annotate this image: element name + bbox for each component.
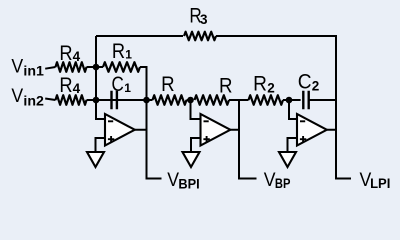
svg-text:C: C xyxy=(112,73,124,96)
svg-text:in1: in1 xyxy=(23,64,44,79)
wire: R2 to node E xyxy=(283,99,289,101)
svg-text:2: 2 xyxy=(267,81,275,96)
wire: node A to R1 xyxy=(96,66,103,68)
svg-text:R: R xyxy=(219,75,233,98)
node C junction dot xyxy=(187,97,194,104)
resistor R4 (upper, Vin1) xyxy=(56,62,87,72)
svg-text:R: R xyxy=(161,73,175,96)
svg-text:2: 2 xyxy=(312,79,320,94)
svg-text:R: R xyxy=(59,74,72,97)
wire: top feedback run (node A to right column) xyxy=(96,35,336,37)
wire: Vin1 lead into R4a xyxy=(45,67,55,69)
wire: U2 plus input to ground xyxy=(191,138,201,152)
capacitor C2 xyxy=(303,91,308,109)
svg-text:1: 1 xyxy=(125,47,132,61)
op-amp U3 xyxy=(297,114,327,146)
wire: leads of R #1 xyxy=(147,99,191,101)
wire: node A vertical (top wire down to op-amp U1 minus input) xyxy=(96,36,105,119)
wire: U3 plus input to ground xyxy=(288,138,298,152)
resistor R4 (lower, Vin2) xyxy=(56,95,87,105)
ground (U3 non-inverting input) xyxy=(279,152,296,167)
wire: Vin2 lead into R4b xyxy=(45,99,55,101)
wire: lead R#2 to T junction xyxy=(229,99,239,101)
svg-text:R: R xyxy=(253,73,267,96)
wire: node B vertical (down to VBPI stub) xyxy=(147,67,162,179)
resistor R2 xyxy=(249,95,284,105)
wire: right column vertical (top wire to VLPI stub) xyxy=(336,35,351,179)
ground (U2 non-inverting input) xyxy=(183,152,200,167)
wire: U2 output to column xyxy=(231,129,240,131)
svg-text:4: 4 xyxy=(73,49,81,64)
wire: C2 right plate to right column xyxy=(309,99,336,101)
svg-text:LPI: LPI xyxy=(370,176,390,191)
resistor R (node C to op2 output) xyxy=(195,95,230,105)
svg-text:R: R xyxy=(59,42,72,65)
resistor R (node B to node C) xyxy=(153,95,187,105)
wire: node E to C2 left plate xyxy=(289,99,301,101)
svg-text:C: C xyxy=(298,71,312,94)
node A junction dot (line1) xyxy=(93,64,100,71)
svg-text:BP: BP xyxy=(275,176,291,191)
svg-text:V: V xyxy=(11,86,23,107)
op-amp U1 xyxy=(105,114,135,146)
svg-text:V: V xyxy=(11,56,23,77)
resistor R3 xyxy=(184,32,216,41)
ground (U1 non-inverting input) xyxy=(87,152,104,167)
resistor R1 xyxy=(103,62,140,72)
svg-text:3: 3 xyxy=(200,12,208,27)
wire: node A to C1 left plate xyxy=(96,99,144,101)
node E junction dot xyxy=(286,97,293,104)
wire: U3 output to right column xyxy=(327,129,336,131)
node B junction dot xyxy=(143,97,150,104)
wire: node E vertical to U3 minus input xyxy=(289,100,297,119)
node A junction dot (line2) xyxy=(93,97,100,104)
wire: U1 output to node B column xyxy=(135,129,147,131)
capacitor C1 xyxy=(112,91,117,109)
svg-text:BPI: BPI xyxy=(178,176,199,191)
wire: op2 output column (T junction down to VBP stub) xyxy=(239,99,257,179)
svg-text:1: 1 xyxy=(124,81,131,95)
wire: node C vertical to U2 minus input xyxy=(191,100,201,119)
wire: R4b to node A (line 2) xyxy=(87,99,97,101)
wire: T junction to R2 lead xyxy=(239,99,249,101)
svg-text:in2: in2 xyxy=(23,94,44,109)
svg-text:4: 4 xyxy=(73,81,81,96)
op-amp U2 xyxy=(201,114,231,146)
wire: R4a to node A xyxy=(87,66,97,68)
wire: U1 plus input to ground xyxy=(96,138,106,152)
wire: R1 right end down to node B xyxy=(140,67,147,100)
svg-text:R: R xyxy=(112,40,125,63)
